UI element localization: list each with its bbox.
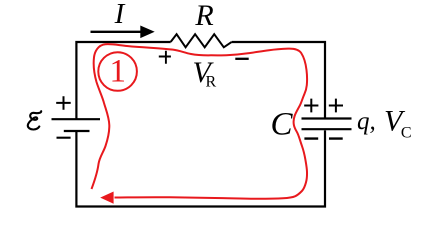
svg-text:q,: q, — [357, 108, 376, 135]
current arrow — [91, 31, 144, 33]
capacitor minus labels — [304, 137, 342, 139]
svg-text:R: R — [206, 74, 217, 91]
red loop arrowhead — [100, 192, 113, 204]
wire top-right segment — [232, 42, 325, 118]
svg-text:R: R — [194, 0, 213, 32]
battery emf source plates — [52, 118, 101, 120]
battery plus label — [56, 96, 70, 110]
loop number circle — [98, 52, 137, 91]
battery minus label — [57, 137, 71, 139]
wire bottom + right-lower segment — [76, 130, 325, 206]
svg-text:1: 1 — [110, 53, 127, 89]
capacitor plus labels — [304, 99, 343, 113]
wire top-left segment — [76, 42, 170, 119]
svg-text:C: C — [401, 125, 412, 142]
red loop wire (KVL direction) — [92, 44, 308, 199]
resistor minus label — [235, 58, 248, 60]
svg-text:I: I — [114, 0, 126, 30]
svg-text:C: C — [271, 107, 294, 143]
resistor R — [171, 34, 232, 47]
resistor plus label — [159, 51, 171, 64]
capacitor C plates — [302, 117, 352, 119]
emf symbol script E — [28, 111, 41, 129]
